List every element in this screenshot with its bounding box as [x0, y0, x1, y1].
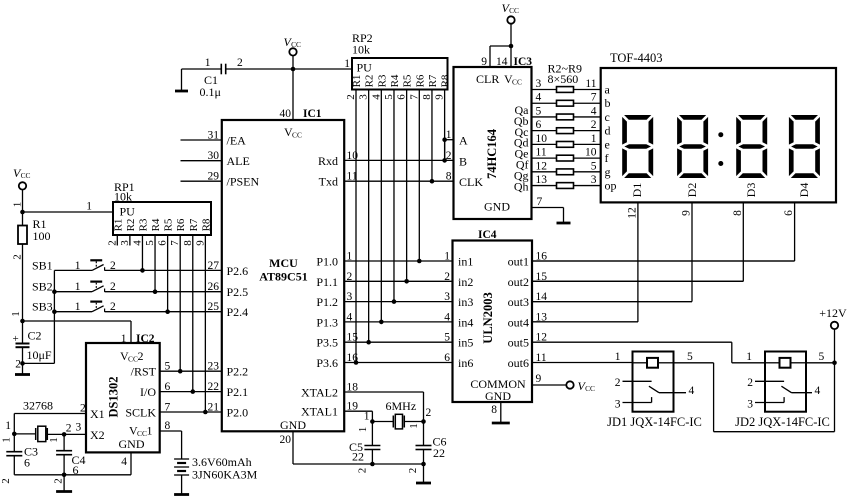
svg-text:4: 4 — [121, 456, 127, 468]
svg-text:12: 12 — [626, 207, 638, 219]
svg-text:CC: CC — [21, 171, 31, 180]
svg-text:SB2: SB2 — [32, 280, 53, 294]
svg-text:11: 11 — [585, 78, 596, 90]
svg-text:2: 2 — [53, 478, 65, 484]
svg-text:8: 8 — [165, 420, 171, 432]
svg-text:1: 1 — [357, 427, 369, 433]
svg-text:2: 2 — [615, 377, 621, 389]
svg-text:5: 5 — [383, 94, 395, 100]
svg-text:6: 6 — [157, 240, 169, 246]
svg-text:P1.3: P1.3 — [316, 315, 338, 329]
svg-text:out3: out3 — [508, 295, 529, 309]
svg-text:4: 4 — [444, 311, 450, 323]
svg-text:6: 6 — [396, 94, 408, 100]
svg-text:D1: D1 — [630, 183, 644, 198]
svg-text:P2.1: P2.1 — [227, 385, 249, 399]
svg-text:10: 10 — [536, 133, 548, 145]
svg-text:3: 3 — [444, 291, 450, 303]
svg-text:1: 1 — [344, 58, 350, 70]
svg-text:ALE: ALE — [227, 154, 250, 168]
svg-text:XTAL1: XTAL1 — [301, 405, 338, 419]
svg-text:GND: GND — [280, 418, 306, 432]
svg-text:op: op — [605, 179, 617, 193]
svg-text:2: 2 — [80, 403, 86, 415]
svg-text:10k: 10k — [352, 43, 370, 57]
svg-text:SB1: SB1 — [32, 258, 53, 272]
svg-text:R1: R1 — [112, 219, 124, 232]
svg-text:32768: 32768 — [23, 399, 53, 413]
svg-text:8: 8 — [732, 210, 744, 216]
svg-text:2: 2 — [138, 349, 144, 363]
svg-text:+: + — [13, 333, 19, 345]
svg-text:R5: R5 — [402, 74, 414, 87]
svg-text:7: 7 — [591, 92, 597, 104]
svg-text:GND: GND — [484, 200, 510, 214]
svg-text:P2.5: P2.5 — [227, 285, 249, 299]
svg-text:1: 1 — [205, 57, 211, 69]
svg-text:1: 1 — [591, 133, 597, 145]
svg-text:9: 9 — [194, 240, 206, 246]
svg-text:PU: PU — [120, 205, 136, 219]
svg-text:R2: R2 — [364, 75, 376, 88]
svg-text:7: 7 — [408, 94, 420, 100]
svg-text:/PSEN: /PSEN — [227, 175, 260, 189]
svg-text:4: 4 — [591, 105, 597, 117]
svg-text:2: 2 — [0, 478, 12, 484]
svg-text:in5: in5 — [458, 336, 473, 350]
svg-text:+12V: +12V — [819, 306, 847, 320]
svg-text:9: 9 — [536, 373, 542, 385]
svg-text:CLR: CLR — [476, 72, 499, 86]
svg-text:5: 5 — [591, 160, 597, 172]
svg-text:ULN2003: ULN2003 — [481, 292, 495, 343]
svg-text:TOF-4403: TOF-4403 — [610, 51, 663, 65]
svg-text:in3: in3 — [458, 295, 473, 309]
svg-text:A: A — [459, 134, 468, 148]
svg-text:7: 7 — [537, 196, 543, 208]
svg-text:1: 1 — [75, 301, 81, 313]
svg-text:Rxd: Rxd — [318, 154, 338, 168]
svg-text:2: 2 — [357, 468, 369, 474]
svg-text:CC: CC — [128, 355, 138, 364]
svg-text:5: 5 — [687, 351, 693, 363]
svg-text:8×560: 8×560 — [548, 72, 579, 86]
svg-text:f: f — [605, 151, 609, 165]
svg-text:X1: X1 — [90, 407, 105, 421]
svg-text:1: 1 — [615, 351, 621, 363]
svg-text:out2: out2 — [508, 275, 529, 289]
svg-text:CC: CC — [509, 6, 519, 15]
svg-text:P1.0: P1.0 — [316, 255, 338, 269]
svg-text:P3.6: P3.6 — [316, 356, 338, 370]
svg-text:Qh: Qh — [514, 179, 529, 193]
svg-text:1: 1 — [446, 129, 452, 141]
svg-text:c: c — [605, 110, 610, 124]
svg-text:out5: out5 — [508, 336, 529, 350]
svg-text:MCU: MCU — [269, 256, 298, 270]
svg-text:out1: out1 — [508, 255, 529, 269]
svg-text:P2.0: P2.0 — [227, 406, 249, 420]
svg-text:31: 31 — [208, 130, 220, 142]
svg-text:1: 1 — [364, 411, 370, 423]
svg-text:R3: R3 — [376, 74, 388, 87]
svg-text:D4: D4 — [797, 183, 811, 198]
svg-text:3: 3 — [747, 399, 753, 411]
svg-text:IC4: IC4 — [478, 229, 497, 241]
svg-text:d: d — [605, 124, 611, 138]
svg-text:Txd: Txd — [319, 175, 338, 189]
svg-text:10k: 10k — [114, 190, 132, 204]
svg-text:CC: CC — [512, 78, 522, 87]
svg-text:5: 5 — [144, 240, 156, 246]
svg-text:/RST: /RST — [131, 365, 157, 379]
svg-text:P1.1: P1.1 — [316, 275, 338, 289]
svg-text:in4: in4 — [458, 315, 473, 329]
svg-text:5: 5 — [444, 332, 450, 344]
svg-text:6: 6 — [24, 456, 30, 470]
svg-text:R4: R4 — [389, 74, 401, 87]
svg-text:4: 4 — [815, 385, 821, 397]
svg-text:8: 8 — [182, 240, 194, 246]
svg-text:CC: CC — [585, 384, 595, 393]
svg-text:8: 8 — [446, 171, 452, 183]
svg-text:4: 4 — [370, 94, 382, 100]
svg-text:X2: X2 — [90, 428, 105, 442]
svg-text:3: 3 — [358, 94, 370, 100]
svg-text:P3.5: P3.5 — [316, 336, 338, 350]
svg-text:1: 1 — [444, 251, 450, 263]
svg-text:5: 5 — [536, 105, 542, 117]
svg-text:6MHz: 6MHz — [386, 399, 417, 413]
svg-text:3JN60KA3M: 3JN60KA3M — [192, 468, 258, 482]
svg-text:100: 100 — [33, 229, 51, 243]
svg-text:C2: C2 — [28, 329, 42, 343]
svg-text:12: 12 — [536, 160, 548, 172]
svg-text:29: 29 — [208, 171, 220, 183]
svg-text:R8: R8 — [440, 74, 452, 87]
svg-text:a: a — [605, 83, 611, 97]
svg-text:in1: in1 — [458, 255, 473, 269]
svg-text:2: 2 — [110, 301, 116, 313]
svg-text:3: 3 — [536, 78, 542, 90]
svg-text:IC2: IC2 — [136, 333, 155, 345]
svg-text:6: 6 — [165, 381, 171, 393]
svg-text:14: 14 — [496, 56, 508, 68]
svg-text:2: 2 — [345, 94, 357, 100]
svg-text:R2: R2 — [125, 219, 137, 232]
svg-text:3: 3 — [591, 174, 597, 186]
svg-text:AT89C51: AT89C51 — [259, 270, 307, 284]
svg-text:I/O: I/O — [140, 385, 156, 399]
svg-text:CLK: CLK — [459, 175, 483, 189]
svg-text:R1: R1 — [351, 75, 363, 88]
svg-text:4: 4 — [536, 92, 542, 104]
svg-text:20: 20 — [280, 434, 292, 446]
svg-text:4: 4 — [689, 385, 695, 397]
svg-text:1: 1 — [147, 424, 153, 438]
svg-text:GND: GND — [485, 389, 511, 403]
svg-text:10: 10 — [585, 147, 597, 159]
svg-text:1: 1 — [10, 311, 22, 317]
svg-text:2: 2 — [12, 254, 24, 260]
svg-text:5: 5 — [165, 361, 171, 373]
svg-text:9: 9 — [481, 56, 487, 68]
svg-text:R5: R5 — [163, 218, 175, 231]
svg-text:5: 5 — [819, 351, 825, 363]
svg-text:2: 2 — [444, 271, 450, 283]
svg-text:IC3: IC3 — [514, 56, 533, 68]
svg-text:6: 6 — [444, 352, 450, 364]
svg-text:CC: CC — [292, 131, 302, 140]
svg-text:6: 6 — [536, 119, 542, 131]
svg-text:SB3: SB3 — [32, 300, 53, 314]
svg-text:R6: R6 — [414, 74, 426, 87]
svg-text:30: 30 — [208, 150, 220, 162]
svg-text:1: 1 — [75, 260, 81, 272]
svg-text:1: 1 — [121, 333, 127, 345]
svg-text:g: g — [605, 165, 611, 179]
svg-text:R4: R4 — [150, 218, 162, 231]
svg-text:IC1: IC1 — [303, 108, 322, 120]
svg-text:74HC164: 74HC164 — [485, 128, 499, 179]
svg-text:P2.6: P2.6 — [227, 264, 249, 278]
svg-text:1: 1 — [1, 437, 13, 443]
svg-text:R7: R7 — [427, 74, 439, 87]
svg-text:40: 40 — [280, 108, 292, 120]
svg-text:11: 11 — [536, 147, 547, 159]
svg-text:P2.4: P2.4 — [227, 305, 249, 319]
svg-text:13: 13 — [536, 174, 548, 186]
svg-text:6: 6 — [73, 463, 79, 477]
svg-text:1: 1 — [75, 281, 81, 293]
svg-text:in6: in6 — [458, 356, 473, 370]
svg-text:7: 7 — [169, 240, 181, 246]
svg-text:22: 22 — [433, 446, 445, 460]
svg-text:2: 2 — [407, 468, 419, 474]
svg-text:9: 9 — [681, 210, 693, 216]
svg-text:4: 4 — [131, 240, 143, 246]
svg-text:out4: out4 — [508, 315, 529, 329]
svg-text:R6: R6 — [175, 218, 187, 231]
svg-text:PU: PU — [357, 61, 373, 75]
svg-text:2: 2 — [15, 359, 21, 371]
svg-text:2: 2 — [110, 260, 116, 272]
svg-text:2: 2 — [591, 119, 597, 131]
svg-text:0.1μ: 0.1μ — [200, 85, 221, 99]
svg-text:2: 2 — [106, 240, 118, 246]
svg-text:10μF: 10μF — [27, 348, 52, 362]
svg-text:2: 2 — [426, 407, 432, 419]
svg-text:9: 9 — [434, 94, 446, 100]
svg-text:7: 7 — [165, 402, 171, 414]
svg-text:JD2 JQX-14FC-IC: JD2 JQX-14FC-IC — [735, 415, 830, 429]
svg-text:D2: D2 — [685, 183, 699, 198]
svg-text:e: e — [605, 137, 610, 151]
svg-text:in2: in2 — [458, 275, 473, 289]
svg-text:1: 1 — [86, 201, 92, 213]
svg-text:3: 3 — [615, 399, 621, 411]
svg-text:out6: out6 — [508, 356, 529, 370]
svg-text:8: 8 — [491, 404, 497, 416]
svg-text:P2.2: P2.2 — [227, 365, 249, 379]
svg-text:1: 1 — [5, 420, 11, 432]
svg-text:22: 22 — [352, 450, 364, 464]
svg-text:P1.2: P1.2 — [316, 295, 338, 309]
svg-text:8: 8 — [421, 94, 433, 100]
svg-text:3: 3 — [76, 422, 82, 434]
svg-text:3: 3 — [119, 240, 131, 246]
svg-text:R7: R7 — [188, 218, 200, 231]
svg-text:2: 2 — [110, 281, 116, 293]
svg-text:6: 6 — [783, 210, 795, 216]
svg-text:B: B — [459, 154, 467, 168]
svg-text:1: 1 — [48, 437, 60, 443]
svg-text:SCLK: SCLK — [125, 406, 156, 420]
svg-text:2: 2 — [237, 57, 243, 69]
svg-text:1: 1 — [12, 202, 24, 208]
svg-text:2: 2 — [446, 150, 452, 162]
svg-text:JD1 JQX-14FC-IC: JD1 JQX-14FC-IC — [607, 415, 702, 429]
svg-text:1: 1 — [746, 351, 752, 363]
svg-text:b: b — [605, 96, 611, 110]
svg-text:D3: D3 — [744, 183, 758, 198]
svg-text:1: 1 — [408, 423, 420, 429]
svg-text:XTAL2: XTAL2 — [301, 386, 338, 400]
svg-text:R3: R3 — [137, 218, 149, 231]
svg-text:DS1302: DS1302 — [107, 377, 121, 418]
svg-text:2: 2 — [66, 423, 72, 435]
svg-text:2: 2 — [747, 377, 753, 389]
svg-text:R8: R8 — [200, 218, 212, 231]
svg-text:/EA: /EA — [227, 134, 247, 148]
svg-text:GND: GND — [119, 437, 145, 451]
